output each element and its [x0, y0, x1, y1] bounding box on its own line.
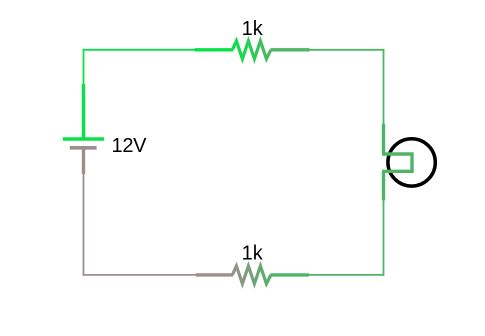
- wire: top-left horizontal (12V net): [83, 49, 195, 51]
- svg-text:12V: 12V: [112, 135, 148, 157]
- lamp L1: [382, 124, 435, 200]
- L1 bottom lead: [382, 171, 385, 200]
- voltage source V1 12V: [63, 84, 104, 174]
- wire: bottom-left horizontal (0V net): [83, 274, 196, 276]
- wire: right vertical upper (6V net): [383, 49, 385, 125]
- R1 left lead: [195, 48, 234, 51]
- svg-text:1k: 1k: [242, 18, 264, 40]
- V1 positive lead: [82, 84, 85, 139]
- wire: right vertical lower (6V net): [383, 200, 385, 276]
- L1 top lead: [382, 124, 385, 154]
- V1 positive plate: [63, 137, 104, 141]
- L1 filament loop: [382, 154, 412, 171]
- L1 bulb circle: [388, 139, 435, 186]
- V1 negative plate: [70, 146, 97, 150]
- wire: top-right horizontal (6V net): [309, 49, 384, 51]
- R1 right lead: [271, 48, 310, 51]
- V1 negative lead: [82, 148, 85, 174]
- wire: bottom-right horizontal (6V net): [309, 274, 384, 276]
- R2 left lead: [196, 273, 233, 276]
- wire: left vertical upper (12V net): [83, 49, 85, 85]
- resistor R2 1k (bottom): [196, 266, 309, 284]
- R1 zigzag body: [232, 41, 271, 59]
- R2 zigzag body: [232, 266, 271, 284]
- wire: left vertical lower (0V net): [83, 173, 85, 276]
- svg-text:1k: 1k: [242, 243, 264, 265]
- resistor R1 1k (top): [195, 41, 310, 59]
- R2 right lead: [271, 273, 310, 276]
